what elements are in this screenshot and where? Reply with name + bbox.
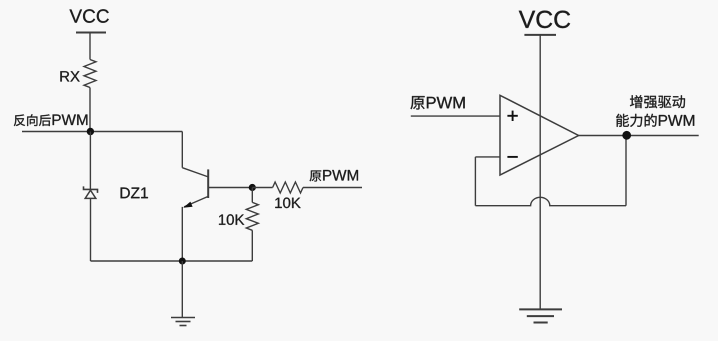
output junction dot bbox=[622, 131, 631, 140]
node B junction dot (base node) bbox=[249, 184, 256, 191]
wire node A horizontal bbox=[22, 131, 182, 133]
wire RX to node A bbox=[89, 88, 91, 132]
resistor R2 value label 10K bbox=[219, 214, 244, 225]
transistor Q1 bbox=[182, 168, 208, 208]
wire VCC through op-amp to ground (right vertical) bbox=[539, 35, 541, 309]
resistor R3 value label 10K bbox=[275, 198, 300, 209]
zener diode DZ1 bbox=[84, 186, 98, 198]
power symbol VCC (left) label bbox=[70, 9, 109, 22]
power symbol VCC (left) bar bbox=[76, 32, 106, 34]
wire zener to bottom rail bbox=[90, 198, 92, 261]
wire to ground (left) bbox=[181, 261, 183, 318]
ground symbol (left) bbox=[171, 318, 195, 326]
bottom rail junction dot bbox=[179, 258, 186, 265]
wire node A to zener bbox=[89, 132, 91, 190]
wire top rail down to transistor collector bbox=[181, 132, 183, 168]
wire feedback right leg bbox=[625, 136, 627, 206]
resistor RX value label bbox=[60, 71, 79, 81]
resistor R3 10K (horizontal) bbox=[273, 182, 303, 193]
wire feedback bottom with hop bbox=[475, 197, 626, 205]
op-amp U1 bbox=[500, 95, 579, 175]
wire R3 to 原PWM stub bbox=[303, 187, 362, 189]
wire transistor base bbox=[208, 187, 252, 189]
zener DZ1 reference label bbox=[121, 188, 148, 199]
resistor RX bbox=[84, 60, 96, 88]
wire inverting input bbox=[475, 156, 500, 158]
bottom rail wire bbox=[91, 260, 253, 262]
wire emitter to bottom rail bbox=[181, 207, 183, 261]
power symbol VCC (right) bar bbox=[524, 34, 556, 36]
net label 反向后PWM bbox=[14, 114, 88, 126]
ground symbol (right) bbox=[519, 309, 562, 322]
node A junction dot bbox=[87, 128, 94, 135]
net label 增强驱动 (line 1) bbox=[630, 95, 685, 108]
wire non-inverting input bbox=[411, 115, 500, 117]
wire VCC to RX bbox=[89, 33, 91, 60]
power symbol VCC (right) label bbox=[519, 11, 570, 29]
wire op-amp output bbox=[579, 135, 699, 137]
resistor R2 10K (vertical) bbox=[246, 202, 258, 230]
net label 原PWM (right circuit) bbox=[411, 96, 465, 109]
wire feedback left leg bbox=[474, 157, 476, 206]
net label 能力的PWM (line 2) bbox=[616, 114, 694, 127]
wire R2 to bottom rail bbox=[251, 230, 253, 261]
wire node B down bbox=[251, 188, 253, 203]
net label 原PWM (left circuit) bbox=[310, 170, 358, 182]
wire node B to R3 bbox=[252, 187, 272, 189]
